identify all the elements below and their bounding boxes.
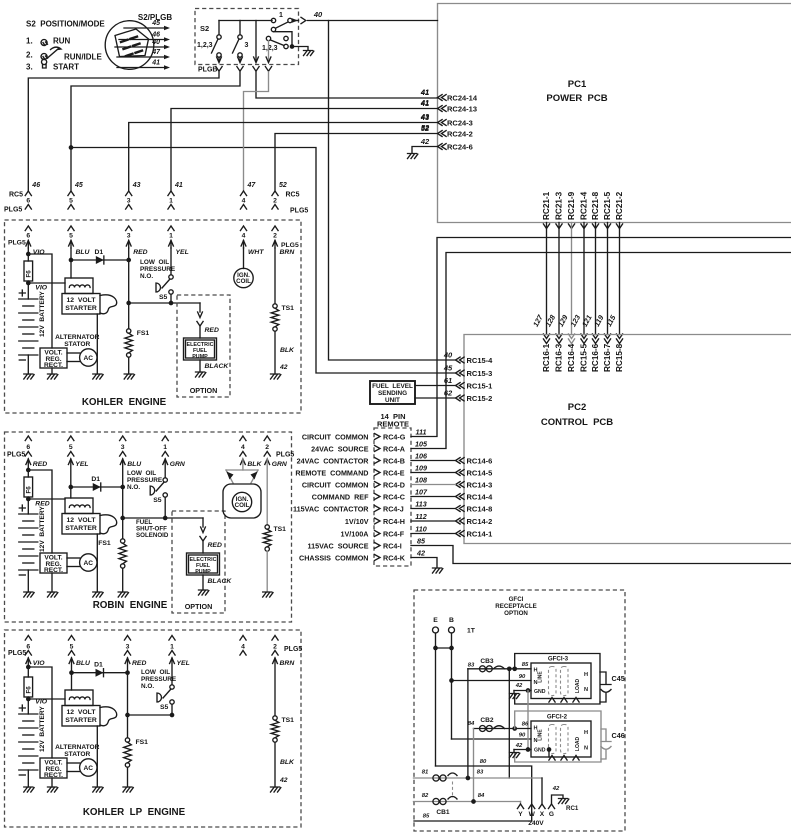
wire 90 to GFCI-3	[452, 680, 532, 682]
svg-text:240V: 240V	[528, 820, 544, 827]
ignition coil (Kohler)	[243, 248, 245, 269]
svg-text:RC21-8: RC21-8	[591, 191, 600, 220]
svg-text:VIO: VIO	[35, 285, 47, 292]
starter solenoid coil	[65, 498, 93, 514]
svg-text:45: 45	[151, 20, 160, 27]
LP pin 6 wire VIO	[26, 658, 31, 664]
svg-text:46: 46	[31, 182, 40, 189]
svg-text:RC24-14: RC24-14	[447, 93, 478, 102]
svg-text:12V BATTERY: 12V BATTERY	[39, 506, 46, 552]
svg-text:E: E	[433, 617, 438, 624]
svg-text:105: 105	[415, 440, 428, 449]
wire from B	[451, 633, 453, 739]
svg-text:RC14-2: RC14-2	[467, 517, 493, 526]
wire 83 drop to X	[541, 778, 543, 804]
svg-text:REMOTE COMMAND: REMOTE COMMAND	[295, 468, 368, 477]
electric fuel pump OPTION dashed box	[172, 511, 225, 613]
svg-text:62: 62	[444, 389, 453, 398]
svg-text:RC15-5: RC15-5	[580, 343, 589, 372]
svg-text:46: 46	[151, 32, 160, 39]
wire 45 S2 pin to engine pin 5 and RC15-3	[71, 72, 240, 191]
svg-text:4: 4	[242, 233, 246, 240]
Robin pin 6 wire RED	[26, 459, 31, 465]
ground (starter)	[93, 592, 103, 597]
svg-text:CONTROL PCB: CONTROL PCB	[541, 417, 613, 428]
svg-text:COIL: COIL	[235, 502, 250, 509]
svg-text:2: 2	[273, 644, 277, 651]
svg-text:N: N	[533, 680, 537, 686]
svg-text:RC5: RC5	[9, 192, 23, 199]
svg-text:RC16-6: RC16-6	[591, 343, 600, 372]
svg-text:83: 83	[468, 663, 475, 669]
svg-text:BLU: BLU	[76, 660, 91, 667]
wire BLU col to diode (LP)	[71, 658, 73, 673]
svg-text:3: 3	[127, 233, 131, 240]
GFCI-2 receptacle	[531, 721, 591, 757]
svg-text:D1: D1	[91, 476, 100, 483]
svg-text:CIRCUIT COMMON: CIRCUIT COMMON	[302, 432, 369, 441]
pin RC15-3	[456, 370, 465, 376]
svg-text:1V/100A: 1V/100A	[341, 529, 369, 538]
svg-text:RC14-3: RC14-3	[467, 480, 493, 489]
svg-text:ALTERNATOR: ALTERNATOR	[55, 334, 100, 341]
svg-text:RC21-2: RC21-2	[615, 191, 624, 220]
Kohler pin 1 wire YEL	[168, 226, 174, 231]
svg-text:LOAD: LOAD	[575, 737, 581, 752]
pin RC15-4	[456, 357, 465, 363]
pin RC21-1 on PC1 bottom edge	[543, 224, 549, 229]
svg-text:6: 6	[26, 198, 30, 205]
capacitor C46	[601, 729, 611, 759]
ground (volt reg)	[48, 374, 58, 379]
svg-text:24VAC CONTACTOR: 24VAC CONTACTOR	[297, 456, 370, 465]
svg-text:2: 2	[273, 233, 277, 240]
svg-text:CHASSIS COMMON: CHASSIS COMMON	[299, 553, 368, 562]
svg-text:RC21-3: RC21-3	[555, 191, 564, 220]
svg-text:1,2,3: 1,2,3	[197, 42, 213, 49]
svg-text:RC24-3: RC24-3	[447, 118, 473, 127]
PCB PC1 power board outline	[438, 4, 791, 223]
svg-text:BRN: BRN	[280, 660, 296, 667]
svg-text:S5: S5	[159, 294, 168, 301]
svg-text:N.O.: N.O.	[127, 484, 140, 491]
svg-text:RC15-4: RC15-4	[467, 356, 494, 365]
key icon run/idle with arrow	[41, 54, 47, 60]
pin RC21-3 on PC1 bottom edge	[556, 224, 562, 229]
svg-text:83: 83	[477, 770, 484, 776]
svg-text:PLG5: PLG5	[290, 208, 308, 215]
svg-text:4: 4	[241, 444, 245, 451]
svg-text:B: B	[449, 617, 454, 624]
svg-text:AC: AC	[84, 355, 94, 362]
svg-text:RC21-9: RC21-9	[567, 191, 576, 220]
pin RC15-2	[456, 395, 465, 401]
svg-text:S2 POSITION/MODE: S2 POSITION/MODE	[26, 20, 105, 29]
svg-text:VIO: VIO	[33, 249, 45, 256]
svg-text:N.O.: N.O.	[140, 273, 153, 280]
svg-text:42: 42	[416, 549, 425, 558]
fuse link FS1 (Robin)	[122, 518, 124, 539]
svg-text:BLACK: BLACK	[205, 363, 230, 370]
svg-text:1,2,3: 1,2,3	[262, 45, 278, 52]
pin RC16-3 on PC2 top edge	[556, 334, 562, 339]
voltage regulator rectifier	[40, 348, 67, 368]
rotary wire 46	[119, 39, 165, 41]
junction node (col6 top)	[26, 665, 31, 670]
wire 115 from RC21-2 to RC15-8	[619, 223, 621, 335]
svg-text:X: X	[540, 811, 545, 818]
svg-text:PRESSURE: PRESSURE	[127, 477, 163, 484]
wire 41 engine pin 1 to RC24-13	[171, 109, 438, 191]
svg-text:N: N	[584, 746, 588, 752]
svg-text:POWER PCB: POWER PCB	[546, 93, 607, 104]
svg-text:1: 1	[170, 644, 174, 651]
svg-text:RC1: RC1	[566, 805, 579, 812]
svg-text:RUN: RUN	[53, 37, 71, 46]
svg-text:RED: RED	[205, 327, 219, 334]
svg-text:42: 42	[552, 786, 560, 792]
svg-text:PRESSURE: PRESSURE	[141, 676, 177, 683]
svg-text:BLACK: BLACK	[208, 578, 233, 585]
svg-text:41: 41	[151, 60, 160, 67]
svg-text:OPTION: OPTION	[185, 602, 213, 611]
svg-text:RC4-K: RC4-K	[383, 553, 406, 562]
svg-text:RECT.: RECT.	[44, 772, 63, 779]
svg-text:RC24-13: RC24-13	[447, 104, 477, 113]
wire RED col	[128, 248, 130, 260]
thermal switch TS1 (Robin)	[266, 459, 268, 525]
svg-text:STARTER: STARTER	[65, 717, 97, 724]
battery 12V	[19, 505, 25, 511]
svg-text:F6: F6	[25, 486, 32, 494]
svg-text:W: W	[529, 811, 536, 818]
ROBIN ENGINE dashed enclosure	[5, 432, 292, 622]
svg-text:RC24-6: RC24-6	[447, 142, 473, 151]
svg-text:WHT: WHT	[248, 249, 264, 256]
svg-text:PC2: PC2	[568, 402, 586, 413]
pin RC16-1 on PC2 top edge	[543, 334, 549, 339]
wire 42 chassis common to ground	[411, 558, 437, 568]
svg-text:45: 45	[74, 182, 83, 189]
Kohler pin 4 wire WHT	[240, 226, 246, 231]
pin RC14-8	[456, 506, 465, 512]
svg-text:H: H	[584, 730, 588, 736]
svg-text:YEL: YEL	[176, 249, 189, 256]
svg-text:RECEPTACLE: RECEPTACLE	[495, 603, 536, 610]
wire 111 to right edge	[411, 238, 791, 437]
svg-text:RC4-G: RC4-G	[383, 432, 406, 441]
pin RC14-2	[456, 518, 465, 524]
svg-text:CIRCUIT COMMON: CIRCUIT COMMON	[302, 480, 369, 489]
KOHLER LP ENGINE dashed enclosure	[5, 630, 302, 827]
svg-text:RC21-4: RC21-4	[580, 191, 589, 220]
wire 129 from RC21-9 to RC16-4	[571, 223, 573, 335]
voltage regulator rectifier	[40, 553, 67, 573]
svg-text:N: N	[533, 738, 537, 744]
svg-text:UNIT: UNIT	[385, 397, 400, 404]
svg-text:82: 82	[422, 793, 429, 799]
ground (TS1 Robin)	[263, 592, 273, 597]
svg-text:S5: S5	[153, 497, 162, 504]
svg-text:Y: Y	[518, 811, 523, 818]
terminal B	[449, 627, 455, 633]
svg-text:RC14-6: RC14-6	[467, 456, 493, 465]
ground (GFCI-2)	[510, 753, 520, 758]
svg-text:RC4-J: RC4-J	[383, 504, 404, 513]
pin RC21-2 on PC1 bottom edge	[616, 224, 622, 229]
svg-text:START: START	[53, 63, 79, 72]
PCB PC2 control board outline	[464, 335, 791, 544]
wire 85 to right edge	[411, 546, 791, 564]
svg-text:RC14-4: RC14-4	[467, 492, 494, 501]
ignition coil with diodes (Robin)	[242, 459, 244, 470]
svg-text:BLU: BLU	[127, 461, 142, 468]
pin RC21-5 on PC1 bottom edge	[604, 224, 610, 229]
svg-text:PUMP: PUMP	[195, 569, 211, 575]
svg-text:RC4-A: RC4-A	[383, 444, 405, 453]
svg-text:ROBIN ENGINE: ROBIN ENGINE	[93, 600, 168, 611]
svg-text:AC: AC	[84, 560, 94, 567]
wire 40 from S2 to PC1/RC15-4	[301, 17, 306, 23]
wire BLU col (Robin)	[122, 459, 124, 487]
svg-text:84: 84	[478, 793, 485, 799]
svg-text:OPTION: OPTION	[190, 386, 218, 395]
svg-text:RED: RED	[132, 660, 146, 667]
svg-text:OPTION: OPTION	[504, 610, 528, 617]
svg-text:RC16-4: RC16-4	[567, 343, 576, 372]
ground (fuel pump)	[199, 590, 209, 595]
LP pin 5 wire BLU	[69, 658, 74, 664]
diode D1	[71, 259, 129, 261]
voltage regulator rectifier	[40, 758, 67, 778]
wire 119 from RC21-5 to RC16-7	[607, 223, 609, 335]
junction node (col6 top)	[26, 468, 31, 473]
svg-text:1: 1	[279, 12, 283, 19]
svg-text:RUN/IDLE: RUN/IDLE	[64, 53, 102, 62]
starter motor 12 VOLT STARTER	[62, 294, 100, 315]
junction node (below fuse)	[26, 697, 31, 702]
svg-text:RC4-I: RC4-I	[383, 541, 402, 550]
svg-text:42: 42	[279, 364, 288, 371]
svg-text:4: 4	[242, 198, 246, 205]
terminal E	[433, 627, 439, 633]
battery 12V	[19, 705, 25, 711]
svg-text:SOLENOID: SOLENOID	[136, 532, 169, 539]
pin RC14-3	[456, 482, 465, 488]
ground (FS1)	[124, 374, 134, 379]
electric fuel pump	[187, 553, 220, 575]
rotary wire 40	[115, 46, 165, 48]
svg-text:N: N	[584, 687, 588, 693]
LP pin 3 wire RED	[125, 658, 130, 664]
svg-text:1: 1	[169, 233, 173, 240]
Robin pin 3 wire BLU	[120, 459, 125, 465]
svg-text:47: 47	[247, 182, 257, 189]
Kohler pin 6 wire VIO	[25, 226, 31, 231]
svg-text:RC4-C: RC4-C	[383, 492, 405, 501]
svg-text:41: 41	[174, 182, 183, 189]
svg-text:RC4-D: RC4-D	[383, 480, 405, 489]
svg-text:12 VOLT: 12 VOLT	[67, 517, 97, 524]
svg-text:COMMAND REF: COMMAND REF	[312, 492, 369, 501]
svg-text:G: G	[549, 811, 554, 818]
svg-text:GFCI: GFCI	[509, 596, 524, 603]
svg-text:1V/10V: 1V/10V	[345, 517, 369, 526]
svg-text:D1: D1	[94, 662, 103, 669]
ground (TS1 Kohler)	[271, 374, 281, 379]
junction node (below fuse)	[26, 281, 31, 286]
svg-text:86: 86	[522, 722, 529, 728]
svg-text:FS1: FS1	[136, 739, 149, 746]
svg-text:RC15-2: RC15-2	[467, 394, 493, 403]
ground (TS1 LP)	[271, 787, 281, 792]
wire G to RC1 ground	[552, 795, 564, 804]
Robin pin 4 wire BLK	[241, 459, 246, 465]
pin RC16-6 on PC2 top edge	[592, 334, 598, 339]
svg-text:6: 6	[26, 644, 30, 651]
svg-text:115VAC SOURCE: 115VAC SOURCE	[308, 541, 369, 550]
svg-text:RECT.: RECT.	[44, 567, 63, 574]
wire BLU col to diode	[70, 248, 72, 260]
svg-text:RC5: RC5	[286, 192, 300, 199]
svg-text:RC15-1: RC15-1	[467, 381, 493, 390]
wire 46 S2 pin to engine pin 6	[28, 72, 219, 191]
pin RC14-6	[456, 458, 465, 464]
svg-text:CB2: CB2	[480, 717, 494, 724]
svg-text:BLK: BLK	[280, 347, 295, 354]
ground (volt reg)	[48, 592, 58, 597]
wire 83 vertical	[467, 669, 469, 778]
svg-text:41: 41	[420, 98, 429, 107]
key icon start	[41, 59, 46, 68]
starter solenoid coil	[65, 690, 93, 706]
wire 84 vertical	[473, 729, 475, 802]
svg-text:5: 5	[69, 444, 73, 451]
svg-text:108: 108	[415, 476, 427, 485]
svg-text:GND: GND	[534, 747, 546, 753]
fuse F6	[24, 261, 33, 281]
wire from E	[435, 633, 437, 766]
svg-text:BLK: BLK	[247, 461, 262, 468]
svg-text:115VAC CONTACTOR: 115VAC CONTACTOR	[293, 504, 369, 513]
pin RC24-14	[438, 95, 447, 101]
junction node (below fuse)	[26, 497, 31, 502]
starter motor 12 VOLT STARTER	[62, 706, 100, 727]
diode D1	[72, 672, 128, 674]
svg-text:90: 90	[519, 674, 526, 680]
svg-text:85: 85	[522, 662, 529, 668]
wire 43 engine pin 3 to RC24-3	[129, 123, 438, 191]
svg-text:61: 61	[444, 376, 452, 385]
svg-text:45: 45	[443, 364, 453, 373]
pin RC21-8 on PC1 bottom edge	[592, 224, 598, 229]
svg-text:TS1: TS1	[274, 526, 287, 533]
svg-text:LOW OIL: LOW OIL	[140, 259, 169, 266]
Robin pin 1 wire GRN	[163, 459, 168, 465]
svg-text:12V BATTERY: 12V BATTERY	[39, 706, 46, 752]
wire 41 S2 pin to RC24-14	[256, 72, 438, 98]
wire from CB3 node down to CB1 row	[508, 669, 510, 778]
ground (S2)	[304, 51, 314, 56]
svg-text:109: 109	[415, 464, 427, 473]
thermal switch TS1 (LP)	[274, 658, 276, 716]
wire 62 to RC15-2	[415, 397, 456, 399]
svg-text:CB1: CB1	[436, 809, 450, 816]
svg-text:RC21-1: RC21-1	[542, 191, 551, 220]
svg-text:LOW OIL: LOW OIL	[127, 470, 156, 477]
svg-text:PLG5: PLG5	[281, 242, 299, 249]
GFCI-3 receptacle	[531, 663, 591, 699]
wire 47 S2 pin to engine pin 4	[244, 72, 269, 191]
svg-text:42: 42	[515, 743, 523, 749]
svg-text:RC21-5: RC21-5	[603, 191, 612, 220]
svg-text:H: H	[584, 672, 588, 678]
svg-text:RECT.: RECT.	[44, 362, 63, 369]
240V output terminals	[517, 804, 523, 809]
starter motor 12 VOLT STARTER	[62, 514, 100, 535]
svg-text:GFCI-2: GFCI-2	[547, 714, 568, 721]
GFCI RECEPTACLE OPTION dashed enclosure	[414, 590, 625, 831]
wire YEL col to S5 (LP)	[171, 658, 173, 685]
svg-text:BRN: BRN	[280, 249, 296, 256]
Robin pin 2 wire GRN	[265, 459, 270, 465]
svg-text:1: 1	[169, 198, 173, 205]
svg-text:KOHLER ENGINE: KOHLER ENGINE	[82, 397, 167, 408]
svg-text:85: 85	[417, 537, 426, 546]
svg-text:AC: AC	[84, 765, 94, 772]
rotary switch S2 face	[105, 21, 154, 70]
ground (GFCI-3)	[510, 694, 520, 699]
svg-text:GFCI-3: GFCI-3	[548, 656, 569, 663]
rotary wire 45	[124, 27, 165, 29]
svg-text:STATOR: STATOR	[64, 341, 90, 348]
ground (battery)	[24, 592, 34, 597]
svg-text:42: 42	[515, 683, 523, 689]
svg-text:90: 90	[519, 733, 526, 739]
LP pin 2 wire BRN	[273, 658, 278, 664]
svg-text:5: 5	[69, 198, 73, 205]
fuse link FS1 (LP)	[127, 715, 129, 738]
svg-text:PLG5: PLG5	[4, 207, 22, 214]
svg-text:6: 6	[26, 444, 30, 451]
svg-text:S2: S2	[200, 24, 209, 33]
wire YEL col to diode (Robin)	[70, 459, 72, 487]
svg-text:3: 3	[127, 198, 131, 205]
svg-text:F6: F6	[25, 686, 32, 694]
svg-text:TS1: TS1	[282, 717, 295, 724]
svg-text:PRESSURE: PRESSURE	[140, 266, 176, 273]
svg-text:LINE: LINE	[538, 729, 544, 741]
capacitor C45	[600, 672, 611, 702]
svg-text:LOAD: LOAD	[575, 679, 581, 694]
svg-text:S5: S5	[160, 704, 169, 711]
svg-text:C45: C45	[612, 674, 625, 683]
fuel pump connector	[202, 518, 204, 527]
svg-text:CB3: CB3	[480, 658, 494, 665]
svg-text:40: 40	[313, 10, 323, 19]
pin RC21-4 on PC1 bottom edge	[581, 224, 587, 229]
pin RC24-6	[438, 144, 447, 150]
pin RC15-1	[456, 383, 465, 389]
svg-text:RC16-3: RC16-3	[555, 343, 564, 372]
electric fuel pump OPTION dashed box	[177, 295, 230, 397]
svg-text:3: 3	[245, 42, 249, 49]
svg-text:84: 84	[468, 721, 475, 727]
electric fuel pump	[184, 338, 217, 360]
svg-text:RC4-E: RC4-E	[383, 468, 405, 477]
pin RC24-3	[438, 120, 447, 126]
svg-text:C46: C46	[612, 731, 625, 740]
